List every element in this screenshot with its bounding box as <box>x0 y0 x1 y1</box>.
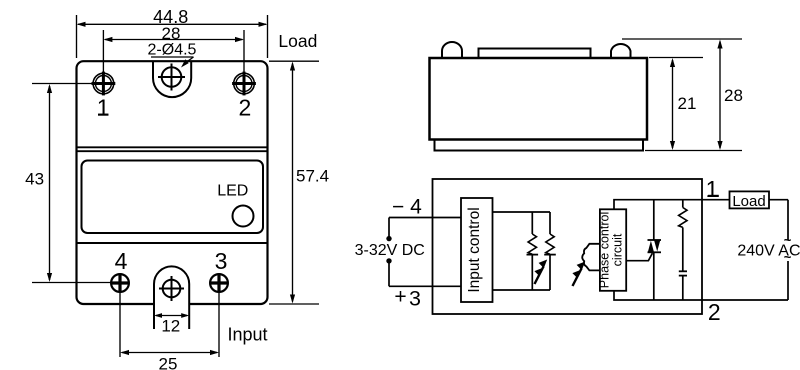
svg-text:2: 2 <box>708 299 721 325</box>
svg-text:3-32V DC: 3-32V DC <box>355 242 425 259</box>
svg-text:57.4: 57.4 <box>296 166 329 185</box>
svg-text:1: 1 <box>706 176 719 202</box>
svg-text:28: 28 <box>162 24 181 43</box>
svg-text:Input control: Input control <box>466 207 483 292</box>
svg-text:Input: Input <box>228 325 268 345</box>
svg-text:25: 25 <box>159 354 178 370</box>
svg-text:+: + <box>394 285 406 308</box>
svg-text:LED: LED <box>217 183 248 200</box>
svg-text:Load: Load <box>278 31 317 51</box>
svg-text:Load: Load <box>732 193 765 210</box>
svg-text:43: 43 <box>25 169 44 188</box>
svg-text:− 4: − 4 <box>392 196 422 219</box>
svg-text:12: 12 <box>161 317 180 336</box>
svg-text:4: 4 <box>115 248 128 274</box>
svg-text:1: 1 <box>97 95 110 121</box>
svg-text:28: 28 <box>724 86 743 105</box>
svg-text:Phase control: Phase control <box>598 212 612 288</box>
svg-text:3: 3 <box>409 287 421 311</box>
svg-text:21: 21 <box>678 94 697 113</box>
svg-text:3: 3 <box>215 248 228 274</box>
svg-text:2: 2 <box>239 95 252 121</box>
svg-text:2-Ø4.5: 2-Ø4.5 <box>148 42 197 59</box>
svg-text:240V AC: 240V AC <box>737 243 800 260</box>
svg-text:circuit: circuit <box>611 233 625 266</box>
